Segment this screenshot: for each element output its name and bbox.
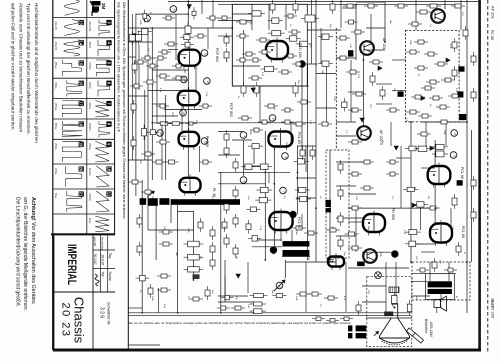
title block table line a [100,234,102,292]
title block table col line 2 [93,268,115,270]
circled number 5 [450,152,457,159]
wire horizontal y=160 [128,159,152,161]
resistor box at 168,42 [164,43,168,45]
wire horizontal y=30.0 [307,29,341,31]
svg-text:Bei uns are beachten dass nur: Bei uns are beachten dass nur Originalte… [129,321,351,325]
audio output dashed box [412,262,470,300]
wire vertical x=346.0 [345,262,347,312]
wire horizontal y=28.0 [366,27,385,29]
wire horizontal y=162.0 [336,161,363,163]
resistor box at 210,230 [212,226,214,230]
circled number 24 [269,115,276,122]
resistor box at 352,140 [348,141,352,143]
arrow into CRT [374,331,379,336]
junction at 297.5,172.3 [297,171,299,173]
wire vertical x=386.0 [385,262,387,312]
title block divider schaltbild/chassis cell [92,234,94,350]
filled circled number 6 [270,247,277,254]
circled number 4 [240,132,247,139]
wire horizontal y=268.0 [348,267,409,269]
resistor box at 224,204 [226,200,228,204]
svg-text:Hochlastwiderstände sind mögli: Hochlastwiderstände sind möglichst durch… [34,3,39,143]
circled number 9 [240,177,247,184]
phase adjuster arrow [274,280,285,291]
svg-text:Typs und mit unbedingt der gle: Typs und mit unbedingt der gleichen Besc… [26,3,31,135]
wire horizontal y=92.0 [348,91,363,93]
circled number 26 [180,110,187,117]
oscillogram box R1 waveform [99,20,110,36]
junction at 307.6,86 [307,85,309,87]
resistor box at 260.3,164 [256,166,260,168]
wire vertical x=363.5 [363,55,365,126]
svg-text:170Vss: 170Vss [88,62,90,71]
resistor box at 352,108 [348,109,352,111]
wire vertical x=426.0 [425,122,427,146]
wire horizontal y=262 [285,261,336,263]
wire vertical x=416.0 [415,0,417,30]
junction at 363.5,60 [363,59,365,61]
svg-text:1M: 1M [183,70,185,73]
resistor box at 235,306 [231,307,235,309]
junction at 265.3,172.3 [264,171,266,173]
resistor box at 352,206 [348,207,352,209]
circled number 42 [144,15,151,22]
svg-text:TW: TW [100,271,104,277]
CRT slanted resistors [407,328,418,338]
oscillogram box R5 waveform [95,101,109,118]
resistor box at 260.3,187.3 [256,189,260,191]
wire vertical x=177.6 [177,205,179,313]
wire vertical x=132.5 [132,14,134,160]
wire horizontal y=49.5 [168,49,178,51]
resistor box at 139.6,275.3 [136,277,140,279]
resistor box at 448,268 [444,269,448,271]
junction at 316,208.1 [315,207,317,209]
wire horizontal y=218.0 [336,217,363,219]
resistor box at 410,110 [406,111,410,113]
oscillogram row line y=58.0 [53,57,115,59]
junction at 274.3,183.8 [273,183,275,185]
svg-text:28Vss: 28Vss [54,143,56,150]
title block table line b [107,234,109,292]
junction at 232.3,28 [231,27,233,29]
wire vertical x=435.1 [434,140,436,166]
oscillogram box R7 waveform [95,141,109,162]
resistor box at 435.8,151.0 [432,153,436,155]
resistor box at 370,76 [372,72,374,76]
resistor box at 421,132 [417,133,421,135]
resistor box at 241,86 [243,82,245,86]
resistor box at 312,292 [308,293,312,295]
resistor box at 150.3,129.7 [146,131,150,133]
resistor box at 145,56 [141,57,145,59]
CRT neck resistor [392,296,397,304]
wire vertical x=252 [251,4,253,30]
wire horizontal y=73.5 [316,73,336,75]
oscillogram number square 5 [106,60,111,65]
title block divider IMPERIAL/Chassis (orig x=292) [53,291,115,293]
resistor box at 187.6,266.7 [184,268,188,270]
junction at 356,4.3 [355,3,357,5]
svg-text:20: 20 [79,167,84,172]
oscillogram number square 10 [106,166,111,171]
resistor box at 203,160 [199,161,203,163]
wire horizontal y=281.3 [411,280,427,282]
svg-text:1M: 1M [427,196,429,199]
svg-text:geprüft: geprüft [93,237,97,246]
resistor box at 441,120 [437,121,441,123]
resistor box at 330,318.5 [326,319,330,321]
svg-text:PC 86: PC 86 [490,30,494,40]
wire vertical x=285.3 [284,260,286,278]
junction at 467,262 [466,261,468,263]
wire horizontal y=286.0 [362,285,386,287]
resistor box at 296,62 [292,63,296,65]
oscillogram box L3 waveform [62,60,81,76]
CRT neck circle [375,272,382,279]
diode at 412,203 [412,203,416,207]
resistor box at 183.8,34.7 [180,36,184,38]
resistor box at 356,305 [358,301,360,305]
resistor box at 364,186 [360,187,364,189]
resistor box at 390,172 [386,173,390,175]
resistor box at 305,15 [301,18,305,20]
resistor box at 271.8,17.9 [268,20,272,22]
resistor box at 131,140 [133,136,135,140]
resistor box at 398,4 [394,5,398,7]
diode at 421,96 [421,96,425,100]
resistor box at 298.6,187.3 [295,189,299,191]
resistor box at 162,50 [158,51,162,53]
resistor box at 176,64 [172,65,176,67]
resistor box at 185,42.2 [181,44,185,46]
resistor box at 435.8,144.3 [432,146,436,148]
resistor box at 285,108 [281,109,285,111]
wire vertical x=265.3 [264,131,266,260]
resistor box at 160.3,121.8 [156,123,160,125]
svg-text:40Vss: 40Vss [88,42,90,49]
resistor box at 185,26 [187,22,189,26]
junction at 193.5,280 [193,279,195,281]
resistor box at 141.6,28.5 [138,31,142,33]
resistor box at 292,30 [288,31,292,33]
wire vertical x=297.5 [297,146,299,214]
resistor box at 148,288 [150,284,152,288]
oscillogram row line y=189.0 [53,188,115,190]
dashed module boundary vertical [335,28,337,150]
wire vertical x=171.0 [170,199,172,223]
resistor box at 145,152 [141,153,145,155]
resistor box at 156,160 [152,161,156,163]
circled number 11 [201,50,208,57]
resistor box at 189,122 [185,123,189,125]
resistor box at 407.3,304.1 [409,300,411,304]
junction at 467,122 [466,121,468,123]
svg-text:PCL 86: PCL 86 [461,226,465,238]
junction at 220.8,312.8 [220,312,222,314]
wire vertical x=356.0 [355,4,357,60]
title block table col line 1 [93,249,115,251]
resistor box at 471,180 [473,176,475,180]
resistor box at 338,216 [340,212,342,216]
wire horizontal y=1.6 [168,1,480,3]
resistor box at 203,104 [199,105,203,107]
wire vertical x=269.0 [268,172,270,183]
oscillogram number square 8 [106,121,111,126]
wire vertical x=430.0 [429,262,431,281]
wire horizontal y=188.0 [411,187,416,189]
wire horizontal y=158.0 [396,157,411,159]
wire vertical x=306.0 [305,262,307,312]
resistor box at 452,42 [454,38,456,42]
svg-text:Rö 7: Rö 7 [490,300,494,308]
wire vertical x=330 [329,150,331,262]
wire color tags right module [398,91,404,96]
resistor box at 141.6,128.5 [143,125,145,129]
resistor box at 299.7,196.3 [296,198,300,200]
resistor box at 322,122 [318,123,322,125]
svg-text:27: 27 [206,81,210,85]
resistor box at 340,36 [336,37,340,39]
oscillogram box L2 waveform [64,40,80,56]
resistor box at 129.2,34.7 [131,31,133,35]
resistor box at 210,246 [212,242,214,246]
wire vertical x=467.0 [466,0,468,313]
svg-text:16: 16 [79,81,84,86]
wire horizontal y=4.3 [218,3,460,5]
convergence coil bars [326,200,331,207]
arrow to line transformer [147,191,154,198]
oscillogram row line y=119.0 [53,118,115,120]
wire horizontal y=86 [232,85,307,87]
resistor box at 252,76 [248,77,252,79]
CRT dashed box [367,277,412,347]
wire vertical x=165.7 [165,95,167,180]
svg-text:A59-11W: A59-11W [429,322,433,337]
circled number 6 [282,153,289,160]
resistor box at 452,94 [448,95,452,97]
oscillogram strip left border [52,0,54,350]
wire horizontal y=90.5 [392,90,406,92]
resistor box at 330,4 [332,0,334,4]
wire vertical x=420.5 [420,208,422,230]
wire vertical x=385.0 [384,2,386,42]
wire horizontal y=58.0 [336,57,356,59]
wire horizontal y=244.0 [411,243,435,245]
circled number 3 [276,282,283,289]
resistor box at 368,4 [364,5,368,7]
wire vertical x=449.0 [448,262,450,281]
resistor box at 293,86 [295,82,297,86]
main schematic frame bottom border [53,349,481,352]
oscillogram number square 16 [79,81,84,86]
wire vertical x=232.3 [231,4,233,86]
resistor box at 137,246 [139,242,141,246]
resistor box at 330,228 [326,229,330,231]
wire vertical x=341.0 [340,0,342,28]
wire vertical x=391.0 [390,122,392,146]
oscillogram number square 15 [79,60,84,65]
resistor box at 135.5,34.7 [138,31,140,35]
resistor box at 160,74 [156,75,160,77]
resistor box at 408.9,229.6 [405,231,409,233]
resistor box at 246,52 [242,53,246,55]
wire horizontal y=296.0 [411,295,430,297]
wire vertical x=436.8 [436,307,438,313]
wire horizontal y=104.0 [376,103,392,105]
resistor box at 134,84 [130,85,134,87]
wire vertical x=162.0 [161,123,163,180]
circled number 2 [181,76,188,83]
transistor T1 AF201 [431,9,445,23]
wire vertical x=260.0 [259,86,261,122]
resistor box at 253.5,293.5 [250,295,254,297]
resistor box at 225.1,295.5 [221,297,225,299]
resistor box at 224,52 [226,48,228,52]
diode at 394,146 [394,146,398,150]
svg-text:17: 17 [79,101,84,106]
wire horizontal y=302 [218,301,254,303]
wire horizontal y=230 [148,229,194,231]
wire vertical x=441.0 [440,294,442,302]
resistor box at 192,11.2 [193,7,195,11]
resistor box at 352,172 [348,173,352,175]
junction at 330,262 [329,261,331,263]
wire horizontal y=96.0 [128,95,148,97]
wire horizontal y=122.0 [336,121,356,123]
oscillogram row line y=17.5 [53,17,115,19]
junction at 152.3,28 [151,27,153,29]
wire vertical x=176.0 [175,14,177,60]
wire horizontal y=315.3 [128,314,411,316]
oscillogram number square 20 [79,166,84,171]
junction at 152.3,122.8 [151,122,153,124]
wire vertical x=306.0 [305,146,307,172]
svg-text:Die Leuchtpunktunterdrückung w: Die Leuchtpunktunterdrückung wird sonst … [15,197,21,307]
resistor box at 338,240 [340,236,342,240]
wire vertical x=135.9 [135,14,137,197]
diode at 378,66 [378,66,382,70]
sheet edge dashed line [487,0,489,352]
resistor box at 163,242 [159,243,163,245]
resistor box at 242,116 [238,117,242,119]
IF module box solid [232,4,307,86]
wire vertical x=471.5 [471,130,473,262]
wire horizontal y=296.0 [218,295,248,297]
resistor box at 271.8,30.5 [268,32,272,34]
resistor box at 132,180 [128,181,132,183]
resistor box at 132,64 [134,60,136,64]
oscillogram box R2 waveform [98,40,110,56]
oscillogram box R8 waveform [96,166,109,187]
resistor box at 252,143.6 [248,145,252,147]
junction at 265.3,260 [264,259,266,261]
resistor box at 246,223.9 [248,220,250,224]
resistor box at 425,86 [421,87,425,89]
wire vertical x=302.0 [301,214,303,230]
tube Rö6 PCL86 pentode [430,224,452,243]
resistor box at 233,248 [235,244,237,248]
svg-text:14: 14 [79,40,84,45]
resistor box at 198,222 [200,218,202,222]
tube PY88 partial [328,257,344,267]
resistor box at 205,290 [207,286,209,290]
resistor box at 259.2,197.4 [255,199,259,201]
resistor box at 222,222 [224,218,226,222]
circled number 27 [204,78,211,85]
resistor box at 240,34 [236,35,240,37]
junction at 385,42 [384,41,386,43]
resistor box at 137,218 [139,214,141,218]
wire vertical x=401.0 [400,146,402,208]
svg-text:95Vss: 95Vss [54,62,56,69]
wire horizontal y=155.0 [218,154,240,156]
oscillogram box R6 waveform [99,121,110,137]
wire vertical x=213.0 [212,0,214,28]
resistor box at 289.7,35.8 [286,38,290,40]
resistor box at 420,268 [416,269,420,271]
resistor box at 160,104 [156,105,160,107]
svg-text:2Vss 50: 2Vss 50 [54,42,56,51]
svg-text:PCL 85: PCL 85 [297,217,301,229]
CRT base [389,287,399,293]
wire vertical x=446.0 [445,122,447,146]
oscillogram row line y=164.0 [53,163,115,165]
resistor box at 440,105 [436,106,440,108]
svg-text:PCF 802: PCF 802 [215,48,219,62]
svg-text:25: 25 [159,133,163,137]
circled number 25 [157,130,164,137]
resistor box at 350,70 [346,71,350,73]
junction at 188.3,14.1 [187,13,189,15]
resistor box at 390,160 [386,161,390,163]
oscillogram number square 21 [79,191,84,196]
resistor box at 415,95 [411,96,415,98]
resistor box at 380,90 [382,86,384,90]
resistor box at 288,54 [284,55,288,57]
resistor box at 456,246 [458,242,460,246]
svg-text:Abstände zum Chassis und zu be: Abstände zum Chassis und zu benachbarten… [18,3,23,133]
filled circled number 1 [299,61,306,68]
junction at 165.7,122.8 [165,122,167,124]
svg-text:Achtung! Vor dem Ausschalten d: Achtung! Vor dem Ausschalten des Gerätes [30,197,36,304]
resistor box at 264.6,66.3 [261,68,265,70]
resistor box at 390,108 [386,109,390,111]
svg-text:Tag: Tag [108,253,112,259]
wire vertical x=188.3 [187,0,189,50]
svg-text:24: 24 [272,118,276,122]
svg-text:30Vss: 30Vss [54,82,56,89]
wire vertical x=142.2 [141,180,143,313]
svg-text:42: 42 [146,18,150,22]
resistor box at 430,80 [426,81,430,83]
wire horizontal y=183.8 [218,183,265,185]
wire horizontal y=64 [302,63,316,65]
resistor box at 224,134 [226,130,228,134]
speaker [434,300,440,308]
resistor box at 364,160 [360,161,364,163]
resistor box at 408.9,241.1 [405,243,409,245]
wire horizontal y=146 [297,145,316,147]
wire horizontal y=236.0 [336,235,356,237]
line output transformer bar [171,199,240,205]
wire vertical x=182.0 [181,104,183,131]
wire vertical x=292.0 [291,230,293,241]
wire vertical x=281.0 [280,230,282,241]
resistor box at 138,60 [134,61,138,63]
oscillogram row line y=98.5 [53,98,115,100]
oscillogram number square 11 [106,191,111,196]
